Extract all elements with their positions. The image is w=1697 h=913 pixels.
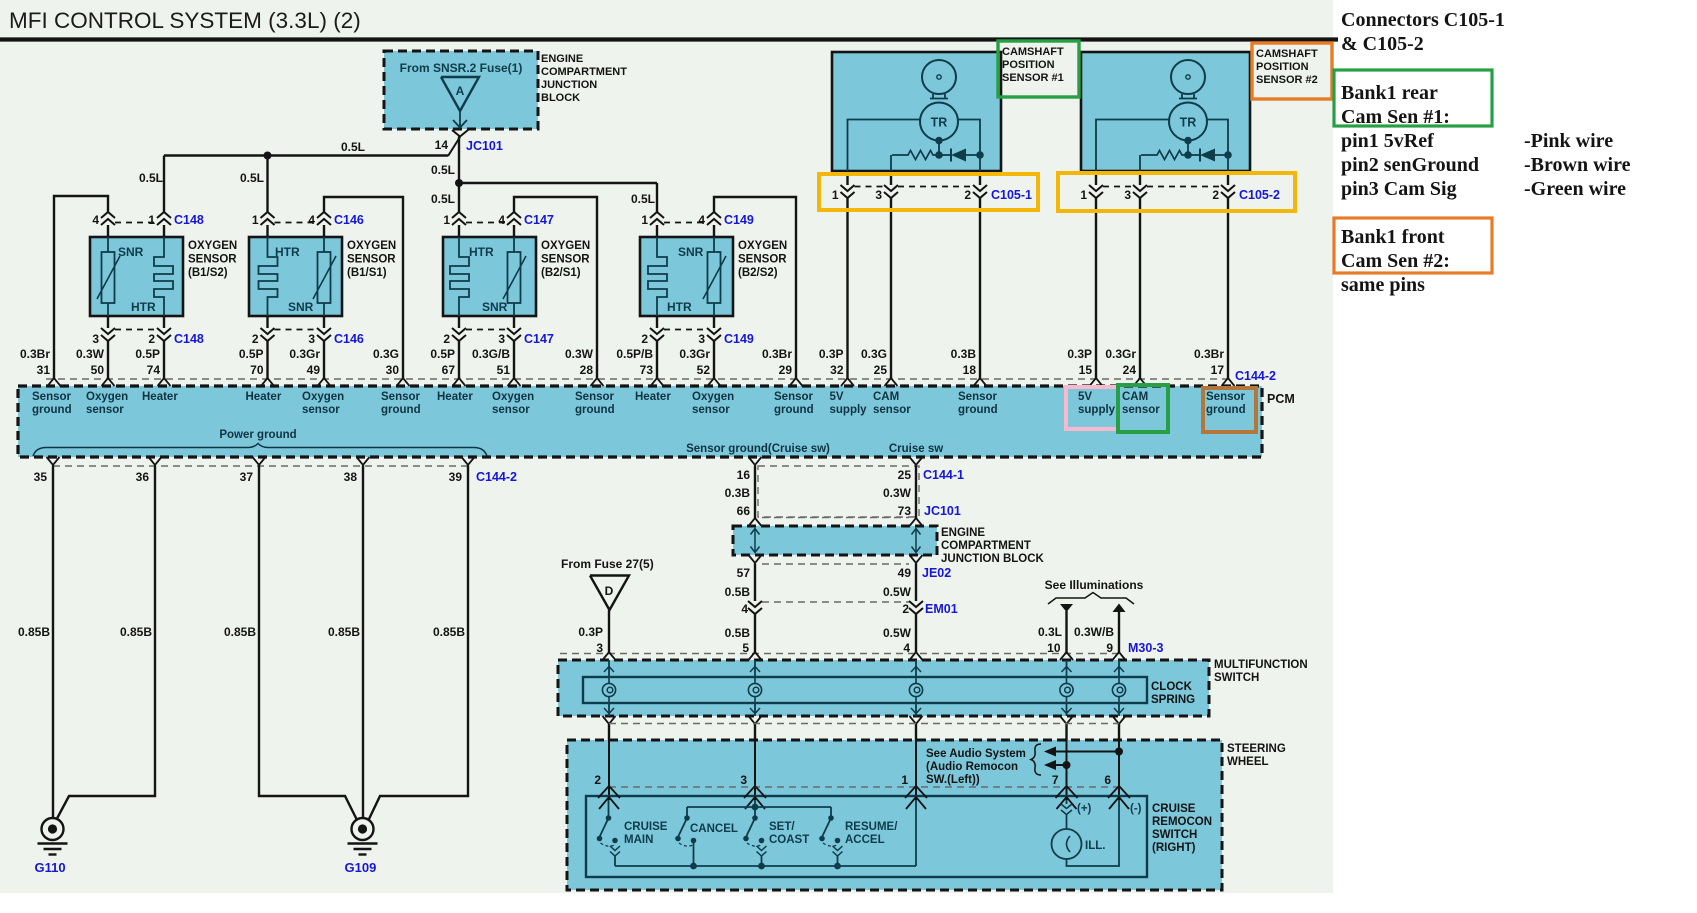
wire to steering wheel — [1065, 724, 1067, 740]
svg-text:2: 2 — [1212, 188, 1219, 202]
wire to steering wheel — [608, 724, 610, 740]
note box orange Bank1 front — [1334, 218, 1492, 273]
svg-text:supply: supply — [1078, 404, 1116, 416]
svg-text:2: 2 — [964, 188, 971, 202]
svg-text:Sensor: Sensor — [774, 391, 814, 403]
junction block: From SNSR.2 Fuse(1) — [384, 51, 538, 129]
svg-text:49: 49 — [898, 566, 912, 580]
switch CRUISE MAIN — [608, 800, 610, 818]
connector C144-2 bottom pin dashed row — [53, 465, 468, 467]
svg-text:C148: C148 — [174, 213, 204, 227]
oxygen sensor B1/S1 block — [249, 237, 342, 316]
svg-text:0.3W: 0.3W — [883, 486, 912, 500]
wire C147 pin 4 into block — [513, 225, 515, 237]
fuse symbol A — [441, 77, 479, 111]
svg-text:2: 2 — [252, 332, 259, 346]
svg-text:SNR: SNR — [482, 300, 508, 314]
wire through clock spring — [749, 652, 762, 660]
svg-text:28: 28 — [580, 363, 594, 377]
wire switch return rail to pin1 — [615, 865, 916, 867]
svg-text:0.3Gr: 0.3Gr — [289, 347, 320, 361]
svg-text:0.3G: 0.3G — [373, 347, 399, 361]
wire C149 pin 4 into block — [713, 225, 715, 237]
wire 0.85B pin37 to G109 — [259, 466, 357, 820]
svg-text:(B1/S1): (B1/S1) — [347, 267, 387, 279]
wire TR left to pin1 — [1096, 120, 1169, 172]
svg-text:C147: C147 — [524, 213, 554, 227]
wire C148 pin 3 to PCM — [107, 341, 109, 379]
svg-text:Sensor: Sensor — [381, 391, 421, 403]
wire C146 pin 3 to PCM — [323, 341, 325, 379]
svg-text:73: 73 — [898, 504, 912, 518]
wire 0.85B pin35 to G110 — [52, 466, 54, 818]
connector C148 bottom row pins 3/2 — [115, 329, 157, 331]
camshaft position sensor block at C105-2 — [1081, 52, 1250, 171]
wire block3 pin4 to PCM pin28 — [514, 197, 597, 379]
svg-text:52: 52 — [697, 363, 711, 377]
svg-text:14: 14 — [435, 138, 449, 152]
wire switch feed rail — [687, 806, 831, 808]
svg-text:sensor: sensor — [1122, 404, 1160, 416]
svg-text:C146: C146 — [334, 213, 364, 227]
steering wheel block — [567, 740, 1222, 890]
svg-text:4: 4 — [498, 213, 505, 227]
svg-text:C147: C147 — [524, 332, 554, 346]
highlight box green CAM sensor — [1118, 385, 1168, 432]
oxygen sensor B1/S2 block — [90, 237, 183, 316]
svg-text:0.3P: 0.3P — [1067, 347, 1092, 361]
svg-text:5V: 5V — [830, 391, 844, 403]
svg-text:SENSOR: SENSOR — [738, 254, 787, 266]
svg-text:24: 24 — [1123, 363, 1137, 377]
wire through clock spring — [1113, 652, 1126, 660]
svg-text:supply: supply — [830, 404, 868, 416]
wire C148 pin 2 out of block — [163, 316, 165, 328]
connector M30-3 pin row — [560, 653, 1119, 655]
svg-text:17: 17 — [1211, 363, 1225, 377]
wire C105-1 pin3 to PCM — [890, 198, 892, 379]
svg-text:SPRING: SPRING — [1151, 694, 1195, 706]
wire 0.3B pin16 to JC101 pin66 — [754, 466, 756, 519]
wire audio lower to pin7 wire — [1056, 764, 1067, 766]
svg-text:SNR: SNR — [288, 300, 314, 314]
svg-text:5: 5 — [742, 641, 749, 655]
wire C149 pin 3 to PCM — [713, 341, 715, 379]
svg-text:0.3W: 0.3W — [76, 347, 105, 361]
wire C146 pin 3 out of block — [323, 316, 325, 328]
svg-text:4: 4 — [741, 602, 748, 616]
wire 0.5B JE02 to EM01 — [754, 564, 756, 602]
svg-text:C105-1: C105-1 — [991, 188, 1032, 202]
svg-text:0.3W/B: 0.3W/B — [1074, 625, 1114, 639]
svg-text:(-): (-) — [1130, 803, 1142, 815]
svg-text:CAM: CAM — [873, 391, 899, 403]
sensor element SNR B2/S2 — [713, 237, 715, 252]
svg-text:From Fuse 27(5): From Fuse 27(5) — [561, 557, 654, 571]
junction block: ENGINE COMPARTMENT JUNCTION BLOCK (mid) — [733, 526, 937, 555]
wire C146 pin 2 out of block — [266, 316, 268, 328]
wire 0.3W/B to M30-3 pin9 — [1118, 612, 1120, 654]
svg-text:CRUISE: CRUISE — [1152, 803, 1196, 815]
svg-text:G109: G109 — [345, 860, 377, 875]
clock spring coil — [1060, 683, 1073, 696]
svg-text:1: 1 — [1080, 188, 1087, 202]
wire 0.5W JE02 to EM01 — [915, 564, 917, 602]
svg-text:BLOCK: BLOCK — [541, 92, 580, 104]
PCM pin 35 power ground — [47, 457, 60, 465]
clock spring coil — [602, 683, 615, 696]
svg-text:HTR: HTR — [667, 300, 692, 314]
wire through clock spring — [910, 652, 923, 660]
svg-text:38: 38 — [344, 470, 358, 484]
wire C149 pin 1 into block — [656, 225, 658, 237]
svg-text:0.3Br: 0.3Br — [1194, 347, 1224, 361]
junction node feed rail pin3 — [752, 804, 759, 811]
svg-text:0.5B: 0.5B — [725, 585, 751, 599]
svg-text:TR: TR — [1180, 116, 1197, 130]
svg-text:SET/: SET/ — [769, 821, 795, 833]
svg-text:ground: ground — [575, 404, 615, 416]
svg-text:6: 6 — [1104, 773, 1111, 787]
svg-text:2: 2 — [594, 773, 601, 787]
wire TR right to pin2 node — [958, 120, 980, 156]
wire C147 pin 3 out of block — [513, 316, 515, 328]
svg-text:OXYGEN: OXYGEN — [541, 240, 590, 252]
svg-text:ground: ground — [958, 404, 998, 416]
svg-text:15: 15 — [1079, 363, 1093, 377]
svg-text:Cam Sen #1:: Cam Sen #1: — [1341, 106, 1450, 128]
svg-text:ground: ground — [1206, 404, 1246, 416]
wire to steering wheel — [1118, 724, 1120, 740]
connector EM01 pins 4/2 — [762, 601, 909, 603]
svg-text:WHEEL: WHEEL — [1227, 756, 1269, 768]
svg-text:(+): (+) — [1077, 803, 1092, 815]
svg-text:(Audio Remocon: (Audio Remocon — [926, 761, 1018, 773]
wire steering pins down to remocon switch — [608, 740, 610, 800]
heater element HTR B1/S2 — [154, 237, 173, 316]
svg-text:0.3Br: 0.3Br — [20, 347, 50, 361]
wire C148 pin 3 out of block — [107, 316, 109, 328]
wire block1 pin4 to PCM pin31 — [54, 196, 108, 379]
PCM pin 25 Cruise sw — [910, 457, 923, 465]
camshaft position sensor block at C105-1 — [832, 52, 1001, 171]
wire C147 pin 3 to PCM — [513, 341, 515, 379]
svg-text:25: 25 — [874, 363, 888, 377]
svg-text:0.3P: 0.3P — [578, 625, 603, 639]
svg-text:JUNCTION: JUNCTION — [541, 79, 597, 91]
connector C144-2 top pin dashed row — [46, 378, 1232, 380]
transistor TR circle — [1169, 103, 1207, 141]
wire C149 pin 2 to PCM — [656, 341, 658, 379]
connector C105-2 pins 1/3/2 — [1095, 171, 1097, 185]
junction node JC101 branch — [455, 179, 463, 187]
PCM pin 16 Sensor ground(Cruise sw) — [749, 457, 762, 465]
svg-text:STEERING: STEERING — [1227, 743, 1286, 755]
sensor pickup circle — [922, 60, 956, 94]
svg-text:& C105-2: & C105-2 — [1341, 33, 1424, 55]
svg-text:ENGINE: ENGINE — [541, 53, 583, 65]
resistor — [892, 151, 939, 160]
brace power ground — [33, 444, 487, 457]
svg-text:(B2/S2): (B2/S2) — [738, 267, 778, 279]
svg-text:Sensor: Sensor — [575, 391, 615, 403]
svg-text:Heater: Heater — [246, 391, 282, 403]
wire 0.5L rail from JC101 to oxygen sensors B1 — [164, 154, 448, 156]
svg-text:See Illuminations: See Illuminations — [1045, 578, 1144, 592]
svg-text:CAMSHAFT: CAMSHAFT — [1002, 46, 1064, 58]
wire 0.5L drop to C148 pin1 — [163, 156, 165, 213]
svg-text:COMPARTMENT: COMPARTMENT — [941, 540, 1031, 552]
wire C147 pin 2 out of block — [458, 316, 460, 328]
wire 0.85B pin36 to G110 — [57, 466, 155, 819]
node TR emitter — [935, 137, 943, 145]
svg-text:HTR: HTR — [469, 245, 494, 259]
svg-text:JC101: JC101 — [466, 139, 503, 153]
svg-text:sensor: sensor — [692, 404, 730, 416]
connector C146 bottom row pins 2/3 — [275, 329, 318, 331]
wire C149 pin 3 out of block — [713, 316, 715, 328]
node diode to pin2 — [976, 151, 984, 159]
svg-text:3: 3 — [92, 332, 99, 346]
svg-text:2: 2 — [902, 602, 909, 616]
wire C148 pin 1 into block — [163, 225, 165, 237]
svg-text:0.3L: 0.3L — [1038, 625, 1062, 639]
svg-text:0.3B: 0.3B — [725, 486, 751, 500]
junction node on 0.5L rail — [264, 152, 272, 160]
wire C105-2 pin2 to PCM — [1227, 198, 1229, 379]
svg-text:35: 35 — [34, 470, 48, 484]
resistor — [1141, 151, 1188, 160]
svg-text:0.85B: 0.85B — [224, 625, 256, 639]
diode — [1188, 154, 1200, 156]
cruise remocon switch box — [586, 796, 1147, 877]
svg-text:10: 10 — [1047, 641, 1061, 655]
wire C146 pin 2 to PCM — [266, 341, 268, 379]
svg-text:9: 9 — [1106, 641, 1113, 655]
svg-text:C144-2: C144-2 — [476, 470, 517, 484]
wire through clock spring — [1060, 652, 1073, 660]
svg-text:CLOCK: CLOCK — [1151, 681, 1193, 693]
svg-text:-Brown wire: -Brown wire — [1524, 154, 1631, 176]
PCM pin 36 power ground — [149, 457, 162, 465]
heater element HTR B1/S1 — [259, 237, 278, 316]
wire block2 pin4 to PCM pin30 — [324, 197, 403, 379]
junction node resume/accel return — [834, 863, 841, 870]
svg-text:ILL.: ILL. — [1085, 840, 1105, 852]
wire ILL return to pin6 — [1067, 800, 1120, 866]
svg-text:POSITION: POSITION — [1256, 61, 1309, 73]
junction node set/coast return — [758, 863, 765, 870]
highlight box brown Sensor ground — [1203, 388, 1256, 432]
svg-text:3: 3 — [596, 641, 603, 655]
svg-text:4: 4 — [308, 213, 315, 227]
svg-text:MULTIFUNCTION: MULTIFUNCTION — [1214, 659, 1308, 671]
connector JE02 pins 57/49 — [749, 555, 762, 563]
junction node cancel return — [690, 863, 697, 870]
svg-text:ACCEL: ACCEL — [845, 834, 885, 846]
svg-text:same pins: same pins — [1341, 274, 1425, 296]
svg-text:(RIGHT): (RIGHT) — [1152, 842, 1196, 854]
svg-text:36: 36 — [136, 470, 150, 484]
svg-text:0.5L: 0.5L — [240, 171, 264, 185]
wire 0.5W EM01 to M30-3 pin4 — [915, 614, 917, 654]
svg-text:66: 66 — [737, 504, 751, 518]
svg-text:32: 32 — [830, 363, 844, 377]
connector C146 top row pins 1/4 — [275, 222, 318, 224]
svg-text:3: 3 — [875, 188, 882, 202]
arrow from illuminations (down) — [1060, 604, 1073, 612]
PCM pin 37 power ground — [253, 457, 266, 465]
svg-text:67: 67 — [442, 363, 456, 377]
svg-text:JUNCTION BLOCK: JUNCTION BLOCK — [941, 553, 1045, 565]
wire resistor to pin3 — [1139, 155, 1141, 171]
clock spring box — [583, 677, 1147, 703]
svg-text:Bank1 rear: Bank1 rear — [1341, 82, 1438, 104]
svg-text:1: 1 — [443, 213, 450, 227]
wire resistor to pin3 — [890, 155, 892, 171]
svg-text:sensor: sensor — [873, 404, 911, 416]
svg-text:Sensor: Sensor — [32, 391, 72, 403]
wire C105-2 pin3 to PCM — [1139, 198, 1141, 379]
sensor element SNR B1/S2 — [107, 237, 109, 252]
connector C149 top row pins 1/4 — [664, 222, 707, 224]
svg-text:Heater: Heater — [142, 391, 178, 403]
svg-text:RESUME/: RESUME/ — [845, 821, 898, 833]
svg-text:2: 2 — [148, 332, 155, 346]
wire to steering wheel — [915, 724, 917, 740]
svg-text:0.5P: 0.5P — [239, 347, 264, 361]
connector C105-1 pins 1/3/2 — [846, 171, 848, 185]
svg-text:MFI CONTROL SYSTEM (3.3L) (2): MFI CONTROL SYSTEM (3.3L) (2) — [9, 8, 361, 33]
highlight box yellow C105-2 — [1058, 173, 1295, 211]
svg-text:25: 25 — [898, 468, 912, 482]
svg-text:1: 1 — [252, 213, 259, 227]
svg-text:73: 73 — [640, 363, 654, 377]
svg-text:C105-2: C105-2 — [1239, 188, 1280, 202]
wire block4 pin4 to PCM pin29 — [714, 197, 796, 379]
svg-text:OXYGEN: OXYGEN — [347, 240, 396, 252]
highlight box yellow C105-1 — [819, 174, 1038, 210]
wire pin2 inside block — [979, 155, 981, 171]
svg-text:0.5L: 0.5L — [431, 163, 455, 177]
svg-text:Oxygen: Oxygen — [692, 391, 734, 403]
svg-text:SENSOR #2: SENSOR #2 — [1256, 74, 1318, 86]
svg-text:Power ground: Power ground — [219, 429, 296, 441]
sensor pickup circle — [1171, 60, 1205, 94]
svg-text:C144-1: C144-1 — [923, 468, 964, 482]
svg-text:1: 1 — [901, 773, 908, 787]
lamp ILL — [1066, 814, 1068, 829]
wire 0.3L to M30-3 pin10 — [1065, 611, 1067, 654]
svg-text:EM01: EM01 — [925, 602, 958, 616]
switch contact (movable arm) — [684, 815, 690, 821]
svg-text:POSITION: POSITION — [1002, 59, 1055, 71]
wire 0.3W pin25 to JC101 pin73 — [915, 466, 917, 519]
svg-text:0.85B: 0.85B — [433, 625, 465, 639]
arrow audio upper — [1044, 747, 1056, 757]
svg-text:49: 49 — [307, 363, 321, 377]
wire C146 pin 1 into block — [266, 225, 268, 237]
svg-text:0.3Gr: 0.3Gr — [679, 347, 710, 361]
svg-text:ground: ground — [774, 404, 814, 416]
svg-text:Bank1 front: Bank1 front — [1341, 226, 1445, 248]
arrow to illuminations (up) — [1113, 604, 1126, 613]
svg-text:D: D — [605, 584, 614, 598]
svg-text:HTR: HTR — [131, 300, 156, 314]
wire 0.5L branch to C149 pin1 — [459, 182, 657, 184]
PCM block — [18, 386, 1262, 457]
diagram background — [0, 0, 1333, 893]
highlight box green CAMSHAFT POSITION SENSOR #1 — [998, 41, 1079, 97]
title rule — [0, 37, 1338, 41]
wire 0.85B pin38 to G109 — [362, 466, 364, 818]
switch contact (movable arm) — [752, 815, 758, 821]
svg-text:M30-3: M30-3 — [1128, 641, 1163, 655]
wire TR left to pin1 — [848, 120, 921, 172]
svg-text:JE02: JE02 — [922, 566, 951, 580]
svg-text:COAST: COAST — [769, 834, 809, 846]
svg-text:1: 1 — [641, 213, 648, 227]
oxygen sensor B2/S1 block — [443, 237, 536, 316]
svg-text:(B2/S1): (B2/S1) — [541, 267, 581, 279]
svg-text:29: 29 — [779, 363, 793, 377]
svg-text:2: 2 — [443, 332, 450, 346]
svg-text:3: 3 — [698, 332, 705, 346]
svg-text:pin1 5vRef: pin1 5vRef — [1341, 130, 1434, 152]
svg-text:COMPARTMENT: COMPARTMENT — [541, 66, 627, 78]
svg-text:-Pink wire: -Pink wire — [1524, 130, 1613, 152]
wire C147 pin 2 to PCM — [458, 341, 460, 379]
svg-text:See Audio System: See Audio System — [926, 748, 1026, 760]
svg-text:0.5L: 0.5L — [631, 192, 655, 206]
svg-text:SENSOR: SENSOR — [541, 254, 590, 266]
svg-text:sensor: sensor — [302, 404, 340, 416]
wire C149 pin 2 out of block — [656, 316, 658, 328]
svg-text:HTR: HTR — [275, 245, 300, 259]
svg-text:18: 18 — [963, 363, 977, 377]
svg-text:From SNSR.2 Fuse(1): From SNSR.2 Fuse(1) — [400, 61, 523, 75]
svg-text:3: 3 — [740, 773, 747, 787]
svg-text:ground: ground — [32, 404, 72, 416]
ground G110 — [42, 818, 64, 840]
svg-text:ground: ground — [381, 404, 421, 416]
ground G109 — [352, 818, 374, 840]
svg-text:Cam Sen #2:: Cam Sen #2: — [1341, 250, 1450, 272]
brace see illuminations — [1048, 593, 1134, 605]
svg-text:CAMSHAFT: CAMSHAFT — [1256, 48, 1318, 60]
svg-text:sensor: sensor — [86, 404, 124, 416]
wire JC101 vertical 0.5L — [458, 137, 460, 213]
svg-text:REMOCON: REMOCON — [1152, 816, 1212, 828]
svg-text:C149: C149 — [724, 332, 754, 346]
svg-text:OXYGEN: OXYGEN — [738, 240, 787, 252]
svg-text:G110: G110 — [35, 860, 66, 875]
oxygen sensor B2/S2 block — [640, 237, 733, 316]
svg-text:3: 3 — [308, 332, 315, 346]
svg-text:39: 39 — [449, 470, 463, 484]
svg-text:ENGINE: ENGINE — [941, 527, 985, 539]
svg-text:SNR: SNR — [118, 245, 144, 259]
svg-text:0.5L: 0.5L — [431, 192, 455, 206]
svg-text:Sensor: Sensor — [958, 391, 998, 403]
svg-text:Heater: Heater — [635, 391, 671, 403]
wire C105-2 pin1 to PCM — [1095, 198, 1097, 379]
wire audio upper to pin6 wire — [1056, 751, 1119, 753]
svg-text:0.5P/B: 0.5P/B — [616, 347, 653, 361]
svg-text:16: 16 — [737, 468, 751, 482]
svg-text:50: 50 — [91, 363, 105, 377]
svg-text:51: 51 — [497, 363, 511, 377]
